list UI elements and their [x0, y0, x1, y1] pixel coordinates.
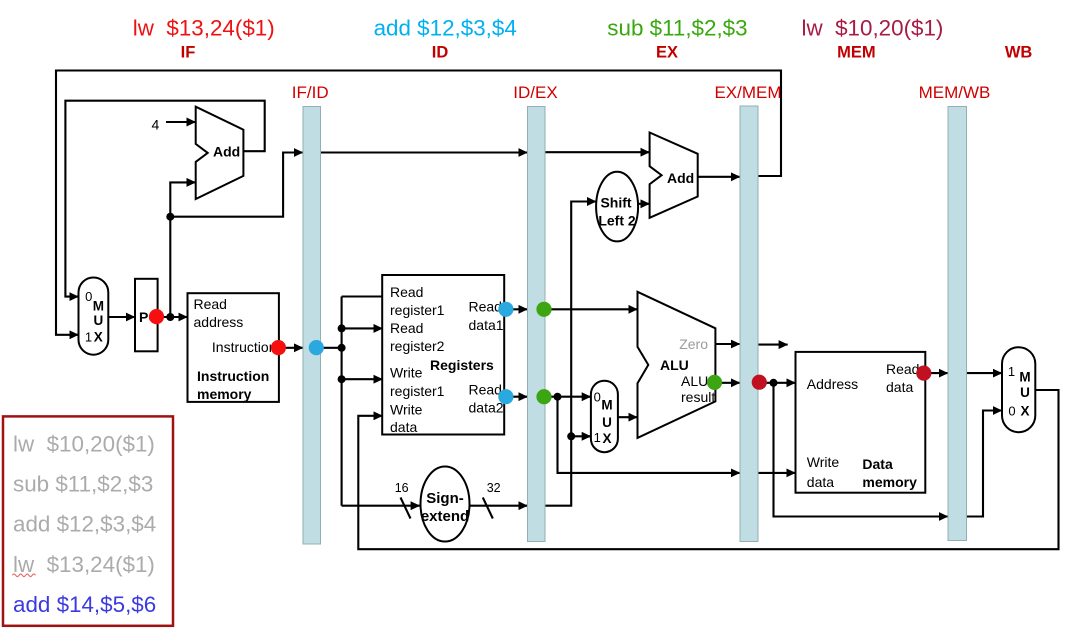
svg-text:MEM/WB: MEM/WB	[919, 83, 991, 102]
svg-text:X: X	[94, 330, 103, 345]
svg-text:sub $11,$2,$3: sub $11,$2,$3	[13, 472, 153, 497]
svg-text:X: X	[1020, 404, 1029, 419]
svg-text:1: 1	[594, 430, 601, 445]
svg-text:16: 16	[395, 481, 409, 495]
svg-text:memory: memory	[862, 474, 917, 490]
svg-text:Sign-: Sign-	[426, 490, 464, 507]
svg-text:IF/ID: IF/ID	[292, 83, 329, 102]
svg-text:Read: Read	[390, 284, 423, 300]
svg-text:address: address	[194, 314, 244, 330]
svg-text:data: data	[886, 379, 913, 395]
svg-text:4: 4	[152, 117, 160, 133]
svg-text:lw $13,24($1): lw $13,24($1)	[13, 552, 155, 577]
svg-text:32: 32	[487, 481, 501, 495]
svg-text:1: 1	[1008, 364, 1015, 379]
svg-text:data2: data2	[469, 400, 504, 416]
svg-text:add $12,$3,$4: add $12,$3,$4	[13, 512, 156, 537]
svg-text:Instruction: Instruction	[197, 368, 269, 384]
svg-text:extend: extend	[421, 508, 469, 525]
svg-text:Shift: Shift	[600, 195, 631, 211]
svg-text:Read: Read	[194, 296, 227, 312]
svg-text:0: 0	[594, 389, 601, 404]
svg-text:Left 2: Left 2	[598, 212, 636, 228]
svg-text:lw $13,24($1): lw $13,24($1)	[133, 15, 275, 40]
svg-text:memory: memory	[197, 386, 252, 402]
svg-text:Add: Add	[667, 170, 694, 186]
svg-text:M: M	[1019, 369, 1030, 384]
svg-text:register2: register2	[390, 338, 445, 354]
svg-text:lw $10,20($1): lw $10,20($1)	[13, 431, 155, 456]
svg-text:Data: Data	[862, 456, 893, 472]
svg-text:1: 1	[85, 330, 92, 345]
svg-text:0: 0	[1008, 404, 1015, 419]
svg-text:EX/MEM: EX/MEM	[714, 83, 781, 102]
svg-text:ID: ID	[432, 44, 449, 62]
svg-text:M: M	[601, 397, 612, 412]
svg-text:U: U	[94, 313, 104, 328]
svg-text:WB: WB	[1005, 44, 1033, 62]
svg-text:U: U	[1020, 385, 1030, 400]
svg-text:Read: Read	[469, 382, 502, 398]
svg-text:EX: EX	[656, 44, 678, 62]
svg-text:result: result	[681, 389, 715, 405]
svg-text:data: data	[390, 419, 417, 435]
svg-text:Add: Add	[213, 144, 240, 160]
svg-text:Instruction: Instruction	[212, 339, 277, 355]
svg-text:data1: data1	[469, 317, 504, 333]
svg-text:MEM: MEM	[837, 44, 876, 62]
svg-text:Write: Write	[390, 402, 423, 418]
svg-text:0: 0	[85, 289, 92, 304]
svg-text:M: M	[93, 299, 104, 314]
svg-text:Zero: Zero	[679, 336, 708, 352]
svg-text:sub $11,$2,$3: sub $11,$2,$3	[607, 15, 747, 40]
svg-text:add $14,$5,$6: add $14,$5,$6	[13, 592, 156, 617]
svg-text:Read: Read	[390, 320, 423, 336]
svg-text:U: U	[602, 415, 612, 430]
svg-text:Write: Write	[807, 454, 840, 470]
svg-text:register1: register1	[390, 302, 445, 318]
svg-text:IF: IF	[181, 44, 196, 62]
svg-text:Registers: Registers	[430, 357, 494, 373]
svg-text:X: X	[602, 431, 611, 446]
svg-text:Write: Write	[390, 365, 423, 381]
svg-text:register1: register1	[390, 383, 445, 399]
svg-text:Read: Read	[886, 361, 919, 377]
svg-text:add $12,$3,$4: add $12,$3,$4	[374, 15, 517, 40]
svg-text:ALU: ALU	[660, 357, 689, 373]
svg-text:data: data	[807, 474, 834, 490]
svg-text:ALU: ALU	[681, 373, 708, 389]
svg-text:Read: Read	[469, 299, 502, 315]
svg-text:ID/EX: ID/EX	[513, 83, 557, 102]
svg-text:lw $10,20($1): lw $10,20($1)	[802, 15, 944, 40]
svg-text:Address: Address	[807, 376, 858, 392]
